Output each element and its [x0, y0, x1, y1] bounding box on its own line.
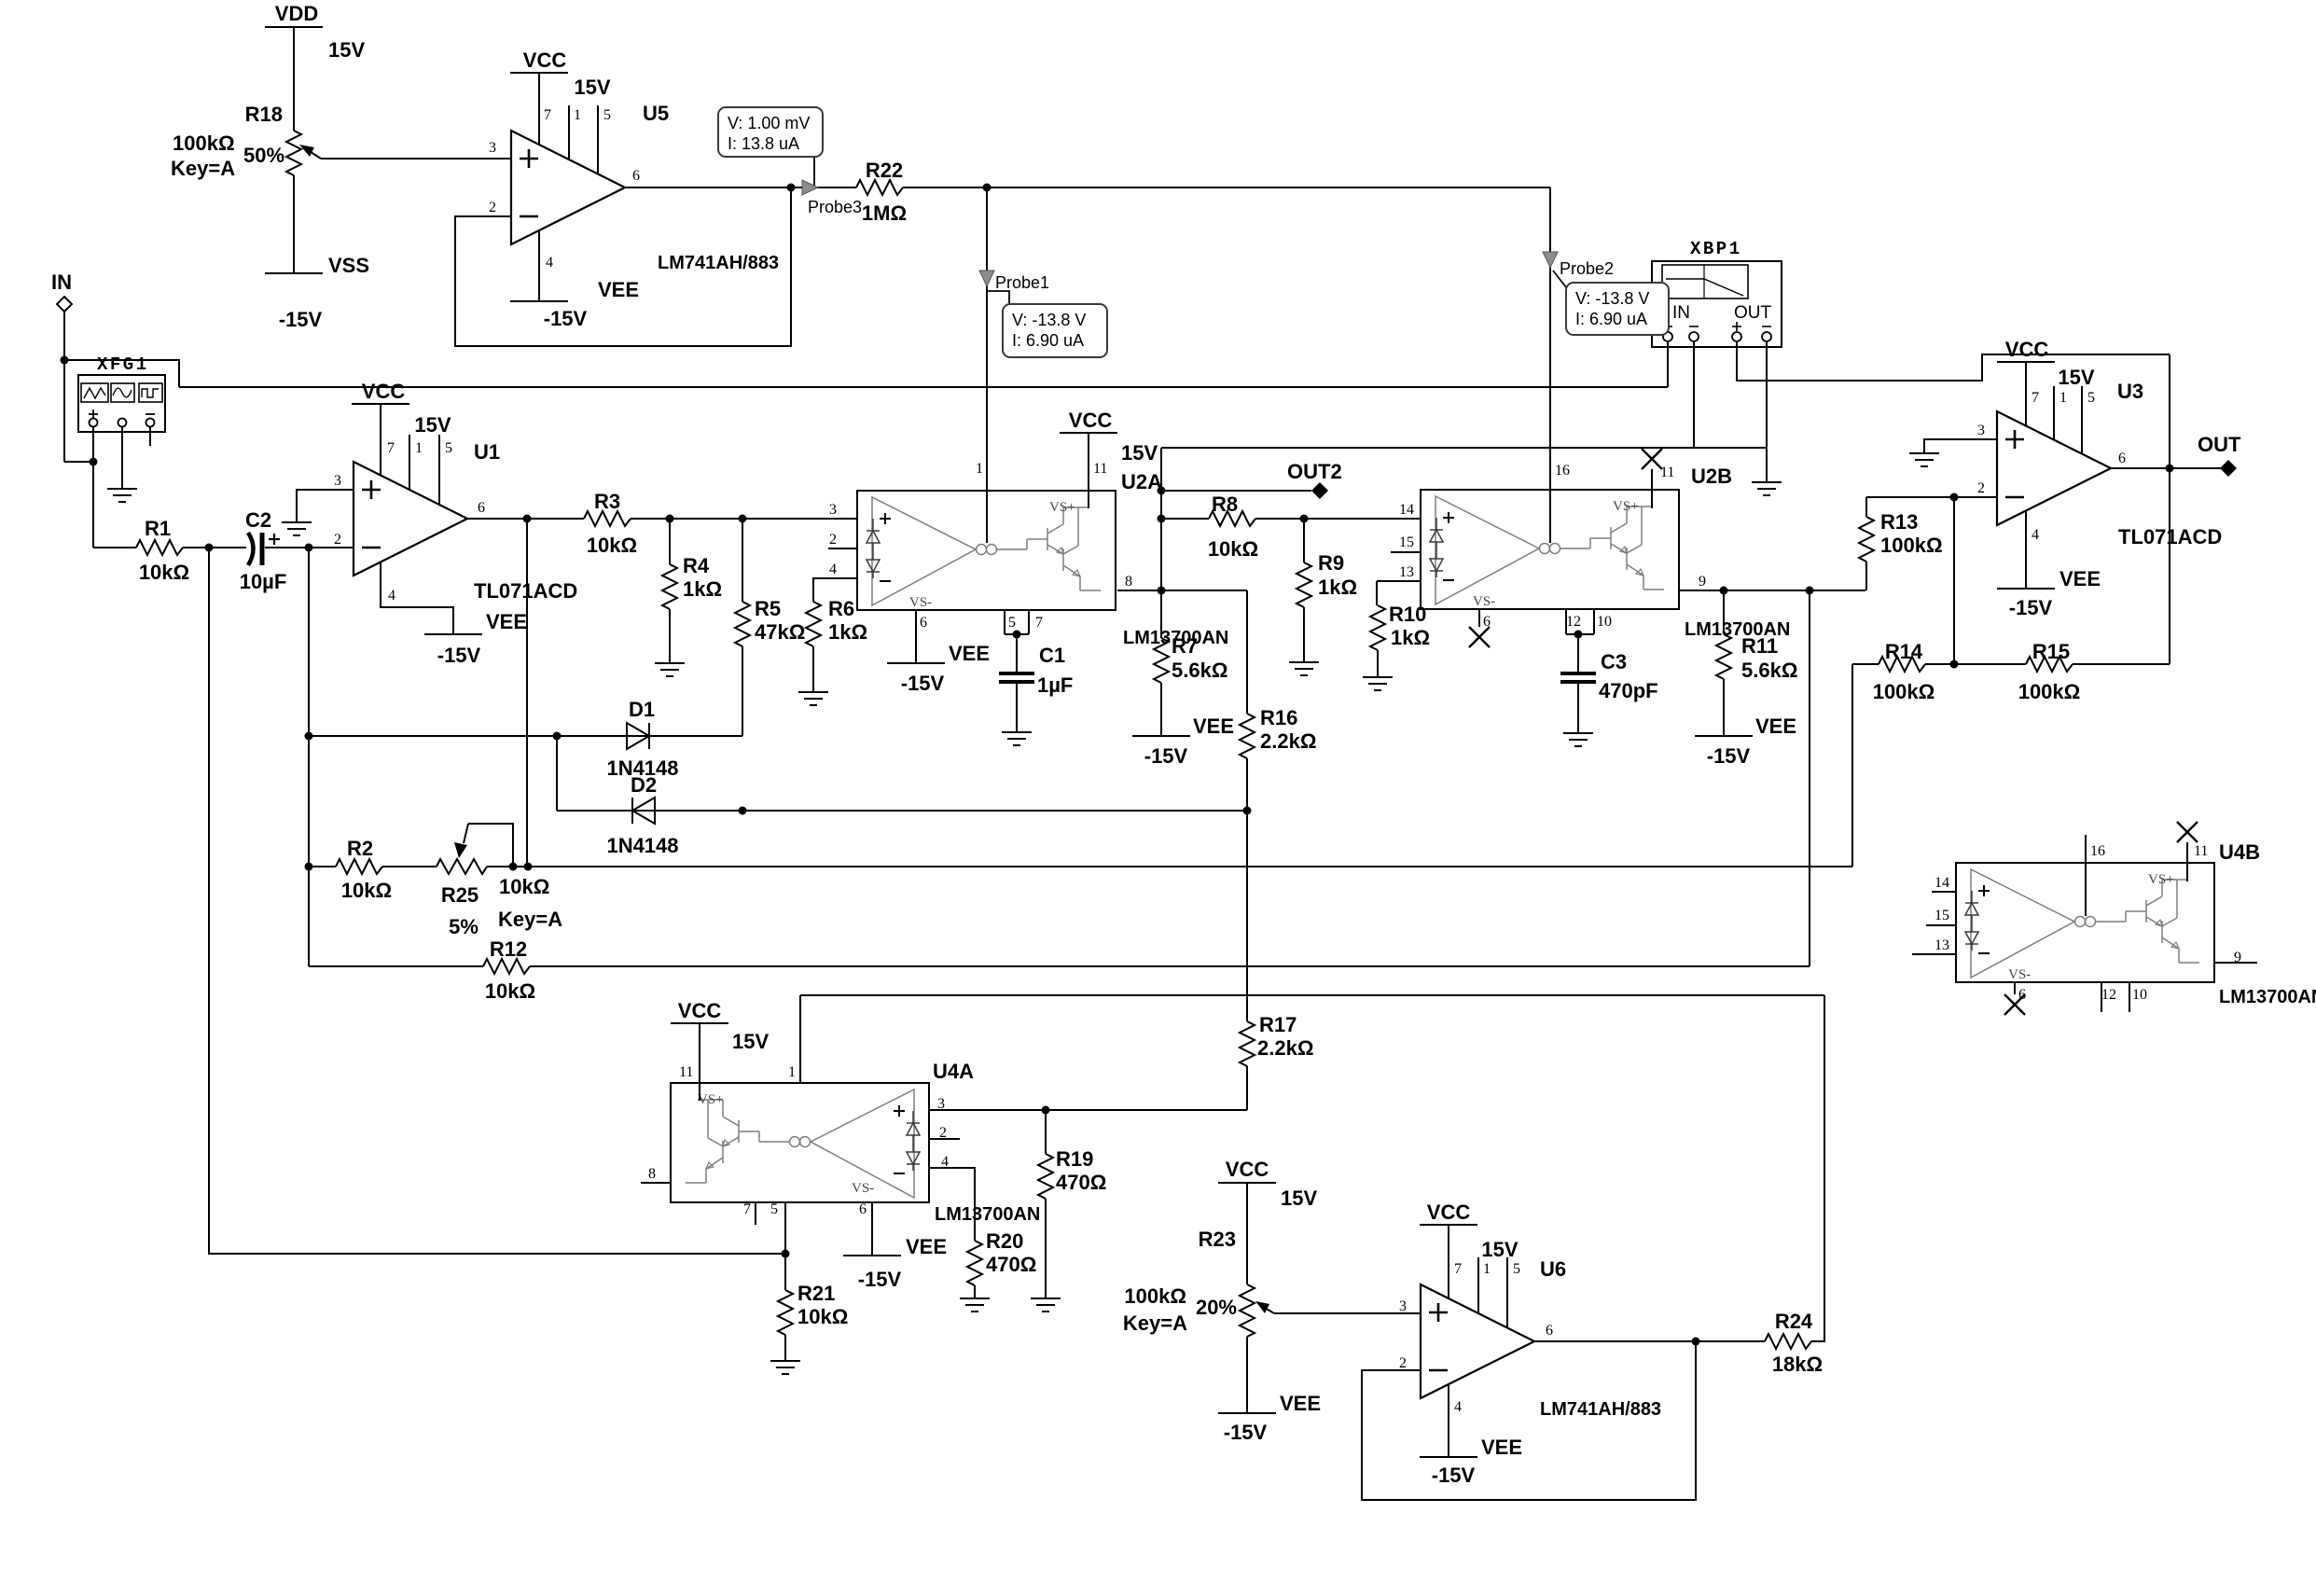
labels R9 1k [1318, 551, 1357, 599]
wire U4A pin1 to R24 [800, 994, 1824, 996]
svg-text:D2: D2 [631, 773, 657, 797]
no-connect X U4B pin11 [2177, 822, 2198, 842]
diode D2 [632, 798, 655, 824]
resistor R4 [662, 519, 677, 663]
pin 6 U5 [632, 168, 640, 184]
ground R10 [1363, 677, 1393, 690]
ground R21 [770, 1361, 800, 1374]
resistor R16 [1240, 590, 1255, 811]
wire U6 pin7 [1448, 1225, 1449, 1298]
svg-text:1: 1 [976, 461, 983, 477]
svg-text:-15V: -15V [858, 1268, 902, 1291]
svg-text:15V: 15V [1281, 1187, 1317, 1210]
wire R25 to R14 [487, 863, 1852, 871]
svg-text:1: 1 [415, 440, 423, 456]
resistor R2 [336, 837, 392, 902]
pin 14 U2B [1396, 502, 1421, 519]
wire R24 up to U4A pin1 [1811, 995, 1824, 1341]
svg-text:7: 7 [387, 440, 395, 456]
resistor R21 [778, 1254, 793, 1361]
svg-text:7: 7 [1035, 615, 1043, 631]
svg-text:20%: 20% [1196, 1296, 1237, 1319]
resistor R6 [806, 578, 857, 692]
wire U2A pin6 VEE [915, 610, 917, 663]
svg-text:VCC: VCC [1226, 1158, 1269, 1181]
stub U4A pin7 [755, 1202, 756, 1225]
svg-text:5: 5 [2087, 390, 2095, 406]
wire U3 output [2111, 465, 2228, 473]
OTA U2B [1421, 490, 1679, 609]
svg-text:VEE: VEE [1755, 715, 1796, 738]
label U2B [1691, 465, 1732, 488]
pin 2 U5 [489, 200, 496, 215]
pin 2 U2A stub [828, 532, 857, 548]
potentiometer R18 [286, 131, 509, 175]
svg-text:10kΩ: 10kΩ [587, 534, 637, 557]
resistor R22 [856, 159, 907, 225]
svg-text:5: 5 [770, 1201, 778, 1217]
resistor R17 [1240, 811, 1255, 1110]
svg-text:5.6kΩ: 5.6kΩ [1741, 659, 1797, 682]
svg-text:R8: R8 [1212, 493, 1238, 516]
wire to R8 [1158, 515, 1210, 523]
pins 1 11 U2A [976, 461, 1107, 477]
svg-text:R14: R14 [1885, 640, 1923, 663]
svg-text:1N4148: 1N4148 [606, 834, 678, 857]
wire U6 pin4 [1448, 1384, 1449, 1457]
wires U2A pins 5 7 [1005, 610, 1029, 639]
pin 13 U2B [1377, 564, 1421, 581]
power VCC U4A [671, 999, 728, 1023]
wire U1 pin7 [380, 404, 381, 476]
bode plotter XBP1 [1652, 261, 1782, 347]
probe callout Probe1 [987, 291, 1107, 357]
power VEE U5 [510, 278, 639, 330]
svg-text:VS+: VS+ [2148, 872, 2174, 887]
svg-text:IN: IN [1672, 303, 1690, 323]
svg-text:Key=A: Key=A [1123, 1311, 1187, 1335]
svg-text:-15V: -15V [279, 308, 323, 331]
pins 3 2 U3 [1977, 423, 1985, 496]
svg-text:C3: C3 [1601, 650, 1627, 673]
pin 9 U4B [2234, 950, 2241, 965]
svg-text:VCC: VCC [678, 999, 722, 1022]
svg-text:VDD: VDD [275, 2, 318, 25]
svg-text:11: 11 [679, 1064, 693, 1080]
svg-text:2: 2 [829, 532, 837, 548]
wire U4A pin6 VEE [871, 1202, 873, 1256]
labels R7 5.6k [1172, 634, 1227, 682]
svg-text:100kΩ: 100kΩ [2018, 680, 2081, 703]
svg-text:I: 6.90 uA: I: 6.90 uA [1012, 331, 1084, 350]
labels R23 100k Key=A [1123, 1284, 1187, 1335]
wire R8 to U2B pin14 [1255, 515, 1421, 523]
label U1 [474, 440, 500, 464]
wire pin2 to R14 R15 node [1953, 497, 1955, 664]
wire XFG1 plus terminal [92, 427, 94, 548]
potentiometer R25 [437, 824, 513, 874]
svg-text:7: 7 [743, 1201, 751, 1217]
svg-text:1kΩ: 1kΩ [1318, 576, 1357, 599]
svg-text:VS-: VS- [2008, 967, 2031, 982]
svg-text:12: 12 [1566, 614, 1581, 630]
label LM741AH/883 U5 [658, 253, 779, 273]
svg-text:3: 3 [1977, 423, 1985, 438]
label LM741AH/883 U6 [1540, 1399, 1661, 1420]
svg-text:5: 5 [1008, 615, 1016, 631]
svg-text:11: 11 [1093, 461, 1107, 477]
pin 8 U4A stub [641, 1166, 671, 1183]
svg-text:TL071ACD: TL071ACD [474, 579, 577, 603]
wire XFG1 common [121, 427, 123, 489]
svg-text:14: 14 [1935, 875, 1949, 891]
svg-text:V: -13.8 V: V: -13.8 V [1012, 311, 1086, 329]
pin 7 U5 [544, 107, 551, 123]
wire to R2 [309, 866, 336, 867]
power VEE R23 [1218, 1392, 1321, 1444]
svg-text:1: 1 [2059, 390, 2067, 406]
pin 15 U4B stub [1926, 908, 1956, 925]
labels C1 1uF [1037, 644, 1073, 697]
svg-text:7: 7 [544, 107, 551, 123]
svg-text:OUT2: OUT2 [1287, 460, 1342, 483]
svg-text:11: 11 [2194, 843, 2208, 859]
svg-text:2.2kΩ: 2.2kΩ [1257, 1036, 1313, 1060]
label R18 50% [243, 144, 284, 167]
svg-text:47kΩ: 47kΩ [755, 620, 805, 644]
wire up to R14 [1852, 664, 1879, 867]
wire U2A pin8 [1117, 587, 1247, 595]
wire D1 anode net [309, 732, 742, 741]
stubs U4B pins 12 10 [2101, 982, 2129, 1012]
wire U5 pin4 [538, 230, 540, 301]
svg-text:10kΩ: 10kΩ [341, 879, 392, 902]
svg-text:I: 13.8 uA: I: 13.8 uA [728, 134, 799, 153]
svg-text:15V: 15V [732, 1030, 769, 1053]
svg-text:R3: R3 [594, 490, 620, 513]
labels R21 10k [797, 1282, 848, 1328]
svg-text:R2: R2 [347, 837, 373, 860]
wire U3 pin7 [2025, 362, 2027, 425]
wire U1 output down to R2 net [526, 519, 528, 867]
power VCC R23 [1218, 1158, 1276, 1183]
svg-text:R16: R16 [1260, 706, 1297, 729]
labels C3 470pF [1599, 650, 1658, 702]
svg-text:100kΩ: 100kΩ [1124, 1284, 1186, 1308]
wire U2B pin16 inside [1549, 491, 1551, 543]
power VCC U6 [1420, 1200, 1477, 1225]
wire R1-C2 node down to U4A pin5 net [208, 548, 210, 1254]
wire Probe2 / U2B pin16 vertical [1549, 187, 1551, 543]
pin 7 U1 [387, 440, 395, 456]
resistor R8 [1208, 493, 1258, 561]
svg-text:R15: R15 [2032, 640, 2070, 663]
svg-text:U3: U3 [2117, 380, 2143, 403]
wire U2B pin9 output [1679, 587, 1865, 595]
svg-text:R7: R7 [1172, 634, 1198, 658]
svg-text:IN: IN [51, 271, 72, 294]
label U4A [933, 1060, 974, 1083]
svg-text:11: 11 [1660, 465, 1674, 480]
svg-text:C1: C1 [1039, 644, 1065, 667]
resistor R5 [735, 519, 750, 736]
labels R25 5% [441, 883, 478, 938]
label R23 [1199, 1228, 1236, 1251]
svg-text:R4: R4 [683, 554, 710, 577]
power VCC U1 [352, 380, 409, 404]
svg-text:18kΩ: 18kΩ [1772, 1353, 1823, 1376]
label TL071ACD U3 [2118, 525, 2222, 548]
power VEE R7 [1132, 715, 1234, 768]
wire XFG1 to XBP1 IN+ [179, 386, 1668, 388]
label 15V R23 [1281, 1187, 1317, 1210]
wire R23 bottom [1246, 1337, 1248, 1413]
pin 6 U6 [1546, 1323, 1553, 1339]
svg-text:15V: 15V [1121, 441, 1158, 465]
svg-text:15V: 15V [1481, 1238, 1518, 1261]
svg-text:Key=A: Key=A [171, 157, 235, 180]
labels R19 470 [1056, 1147, 1106, 1194]
wire IN to R1 corner [64, 458, 98, 466]
labels R4 1k [683, 554, 722, 601]
ground XBP1 OUT- [1752, 482, 1782, 495]
svg-text:10: 10 [1597, 614, 1612, 630]
power VDD [265, 2, 323, 131]
svg-text:10kΩ: 10kΩ [499, 875, 549, 898]
svg-text:I: 6.90 uA: I: 6.90 uA [1575, 310, 1647, 328]
pin 3 U5 [489, 140, 496, 156]
svg-text:3: 3 [489, 140, 496, 156]
svg-text:1kΩ: 1kΩ [683, 577, 722, 601]
svg-text:R10: R10 [1389, 603, 1426, 626]
power VCC U2A [1060, 409, 1117, 433]
svg-text:VCC: VCC [1427, 1200, 1471, 1224]
wire U6 output [1534, 1338, 1765, 1346]
resistor R24 [1765, 1310, 1823, 1376]
wire R12 to U2B pin9 net [530, 965, 1810, 967]
svg-text:VCC: VCC [1069, 409, 1113, 432]
svg-text:470Ω: 470Ω [1056, 1171, 1106, 1194]
wire pin8 node up to XBP1 net [1160, 448, 1162, 590]
label 15V U1 [414, 413, 451, 437]
capacitor C3 [1560, 634, 1596, 733]
svg-text:4: 4 [2032, 527, 2039, 543]
svg-text:8: 8 [648, 1166, 656, 1182]
wire R3 to U2A pin3 [631, 515, 857, 523]
svg-text:R9: R9 [1318, 551, 1344, 575]
capacitor C2 [240, 508, 287, 593]
svg-text:470pF: 470pF [1599, 679, 1658, 702]
svg-text:R19: R19 [1056, 1147, 1093, 1171]
wire U5 feedback [455, 187, 791, 346]
pin 4 U5 [546, 255, 553, 271]
wires U2B pins 12 10 [1566, 609, 1594, 639]
pins 6 12 10 U4B [2018, 987, 2147, 1003]
wire U1 pin3 to ground [297, 490, 354, 522]
svg-text:VCC: VCC [2005, 338, 2049, 361]
svg-text:6: 6 [2118, 451, 2126, 466]
no-connect X U4B pin6 [2004, 994, 2025, 1015]
no-connect X U2B pin11 [1642, 449, 1662, 469]
ground R20 [960, 1298, 990, 1311]
label LM13700AN U2B [1685, 619, 1790, 640]
label 15V U6 [1481, 1238, 1518, 1261]
wire IN down [61, 312, 69, 462]
label U3 [2117, 380, 2143, 403]
resistor R11 [1716, 590, 1731, 736]
svg-text:VSS: VSS [328, 254, 369, 277]
svg-text:R5: R5 [755, 597, 781, 620]
svg-text:VS-: VS- [909, 595, 932, 610]
function generator XFG1 [78, 375, 165, 432]
labels R10 1k [1389, 603, 1430, 649]
ground R9 [1289, 662, 1319, 675]
svg-text:VEE: VEE [949, 642, 990, 665]
resistor R13 [1859, 497, 1874, 590]
svg-text:4: 4 [388, 588, 395, 604]
svg-text:15V: 15V [574, 76, 610, 99]
svg-text:6: 6 [478, 500, 485, 516]
svg-text:VEE: VEE [1193, 715, 1234, 738]
pins 6 5 7 U2A [920, 615, 1043, 631]
wire U3 pin2 [1866, 493, 1997, 502]
svg-text:VS+: VS+ [1049, 500, 1075, 515]
pins 7 5 6 U4A [743, 1201, 867, 1217]
label 15V VDD [328, 38, 365, 62]
wire U1 pin4 [381, 562, 453, 634]
pin 13 U4B stub [1912, 937, 1956, 954]
svg-text:15: 15 [1935, 908, 1949, 923]
wire Probe1 / U2A pin1 vertical [986, 187, 988, 491]
svg-text:-15V: -15V [1707, 744, 1751, 768]
svg-text:Probe1: Probe1 [995, 273, 1049, 292]
svg-text:R21: R21 [797, 1282, 835, 1305]
label R23 20% [1196, 1296, 1237, 1319]
svg-text:OUT: OUT [2198, 433, 2241, 456]
svg-text:2.2kΩ: 2.2kΩ [1260, 729, 1316, 753]
svg-text:16: 16 [1555, 463, 1570, 479]
svg-text:U4B: U4B [2219, 840, 2260, 864]
wire R22 to U2B pin16 [903, 184, 1550, 192]
wires U5 pins 1 5 [569, 105, 598, 174]
labels R16 2.2k [1260, 706, 1316, 753]
probe callout Probe2 [1553, 271, 1669, 335]
svg-text:VEE: VEE [1280, 1392, 1321, 1415]
port OUT2 [1158, 460, 1342, 499]
svg-text:-15V: -15V [1432, 1464, 1476, 1487]
wire R15 to OUT node [2073, 663, 2170, 665]
pins 3 2 U6 [1399, 1298, 1407, 1371]
ground R4 [655, 663, 685, 676]
wire U1 output [467, 515, 584, 523]
svg-text:R25: R25 [441, 883, 478, 907]
pin 9 U2B [1699, 574, 1706, 590]
svg-text:R18: R18 [245, 103, 283, 126]
svg-text:8: 8 [1125, 574, 1132, 590]
svg-text:U1: U1 [474, 440, 500, 464]
wire R2 to R25 [382, 866, 437, 867]
wire R18 wiper to U5 pin3 [325, 158, 511, 160]
svg-text:LM13700AN: LM13700AN [2219, 987, 2316, 1007]
svg-text:-15V: -15V [1224, 1421, 1268, 1444]
wire U3 pin4 [2025, 511, 2027, 589]
svg-text:3: 3 [829, 502, 837, 518]
pins 3 2 U1 [334, 473, 341, 548]
resistor R19 [1038, 1110, 1053, 1298]
svg-text:2: 2 [1977, 480, 1985, 496]
svg-text:R22: R22 [866, 159, 903, 182]
resistor R15 [2018, 640, 2081, 703]
potentiometer R23 [1240, 1284, 1421, 1337]
resistor R10 [1370, 581, 1385, 677]
pins 11 1 U4A [679, 1064, 796, 1080]
resistor R20 [967, 1241, 982, 1298]
labels D2 1N4148 [606, 773, 678, 857]
pins 1 5 U3 [2059, 390, 2095, 406]
pins 16 11 U2B [1555, 463, 1674, 480]
resistor R7 [1154, 590, 1169, 736]
stub U2B pin6 [1478, 609, 1480, 627]
svg-text:6: 6 [1546, 1323, 1553, 1339]
labels D1 1N4148 [606, 698, 678, 780]
probe Probe1 [979, 271, 1049, 292]
svg-text:VEE: VEE [598, 278, 639, 301]
ground U3 pin3 [1909, 453, 1939, 466]
svg-text:5: 5 [445, 440, 452, 456]
svg-text:U5: U5 [643, 102, 669, 125]
svg-text:1kΩ: 1kΩ [1391, 626, 1430, 649]
wire R12 vertical to pin9 node [1809, 590, 1810, 966]
svg-text:U2B: U2B [1691, 465, 1732, 488]
svg-text:15: 15 [1399, 534, 1414, 550]
svg-text:V: -13.8 V: V: -13.8 V [1575, 289, 1649, 308]
svg-text:100kΩ: 100kΩ [1873, 680, 1935, 703]
stub U4B pin6 [2014, 982, 2016, 994]
label TL071ACD U1 [474, 579, 577, 603]
svg-text:VEE: VEE [486, 610, 527, 633]
pins 1 5 U1 [415, 440, 452, 456]
svg-text:R6: R6 [828, 597, 854, 620]
svg-text:-15V: -15V [901, 672, 945, 695]
wire U4A pin11 VCC [699, 1023, 700, 1101]
label U2A [1121, 470, 1162, 493]
ground XFG1 [107, 489, 137, 502]
svg-text:2: 2 [334, 532, 341, 548]
pins 1 5 U6 [1483, 1261, 1520, 1277]
wire U4B pin11 inside [2186, 842, 2188, 881]
label U4B [2219, 840, 2260, 864]
wires U6 pins 1 5 [1478, 1257, 1507, 1328]
svg-text:10: 10 [2132, 987, 2147, 1003]
power VCC U5 [510, 49, 568, 73]
power VSS [265, 175, 369, 331]
svg-text:R23: R23 [1199, 1228, 1236, 1251]
wire U6 feedback [1362, 1341, 1696, 1500]
svg-text:R11: R11 [1741, 634, 1778, 658]
svg-text:1: 1 [788, 1064, 796, 1080]
svg-text:R1: R1 [145, 517, 171, 540]
wire U5 output [625, 184, 856, 192]
OTA U4B [1956, 863, 2214, 982]
svg-text:VS-: VS- [1473, 594, 1495, 609]
labels R6 1k [828, 597, 867, 644]
wire U4A pin3 [930, 1106, 1247, 1115]
ground R19 [1031, 1298, 1061, 1311]
label XFG1 [97, 354, 149, 375]
power VEE U3 [1997, 567, 2101, 619]
wire IN to XFG1 net [64, 360, 179, 387]
power VEE U2A [887, 642, 990, 695]
